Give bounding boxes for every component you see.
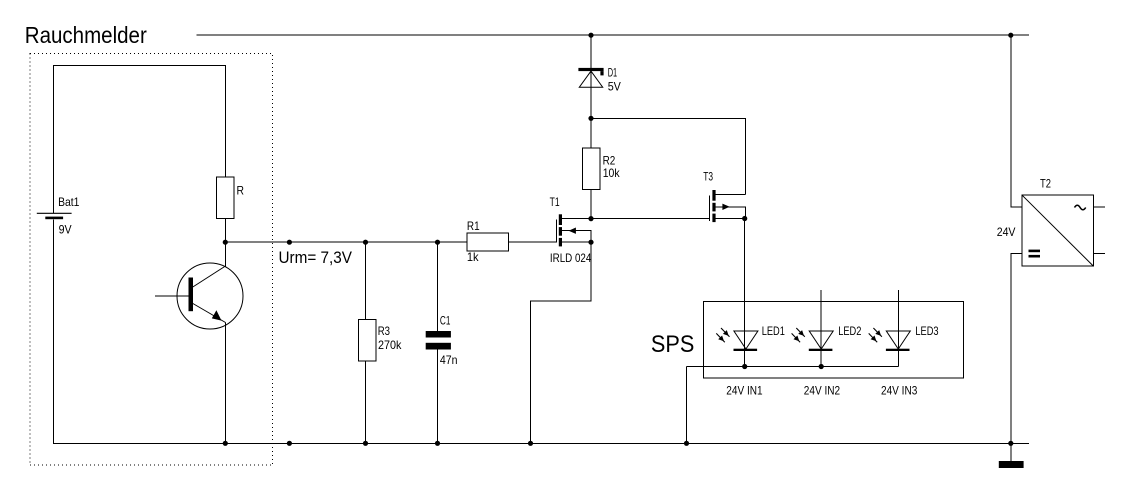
ground symbol: [999, 461, 1024, 468]
T1 gate line: [555, 220, 557, 243]
dashed enclosure Rauchmelder: [30, 54, 273, 466]
svg-text:270k: 270k: [378, 338, 402, 352]
node T1 source: [588, 240, 593, 245]
LED3 cathode bar: [886, 349, 910, 351]
LED1 triangle: [734, 331, 758, 349]
T3 source lead: [715, 218, 745, 220]
T1 channel bars: [559, 214, 562, 246]
power supply T2 diagonal: [1022, 195, 1093, 266]
transistor NPN base bar: [189, 278, 194, 312]
node Urm boundary: [287, 240, 292, 245]
wire NPN base stub: [155, 295, 188, 297]
node T3 source: [742, 216, 747, 221]
node top rail / right rail: [1008, 33, 1013, 38]
svg-text:10k: 10k: [603, 166, 621, 180]
node Urm / R / collector: [223, 240, 228, 245]
node GND / C1: [435, 441, 440, 446]
power supply T2 box: [1022, 195, 1093, 266]
wire T1 source down-step to GND: [531, 242, 592, 443]
transistor NPN circle: [177, 263, 243, 329]
wire LED2 anode stub: [820, 290, 822, 349]
T3 body arrow: [722, 204, 729, 210]
svg-text:24V IN1: 24V IN1: [726, 384, 763, 398]
wire SPS return to GND: [686, 367, 688, 444]
resistor R2 body: [582, 148, 600, 190]
svg-text:R3: R3: [378, 324, 391, 338]
wire battery top to R top: [53, 66, 225, 214]
node Urm / C1: [435, 240, 440, 245]
wire T1 drain node to T3 gate: [591, 218, 709, 220]
resistor R body: [217, 177, 235, 219]
svg-text:T3: T3: [703, 170, 713, 184]
LED2 cathode bar: [809, 349, 833, 351]
node top rail / D1: [588, 33, 593, 38]
wire bottom rail GND: [53, 442, 1029, 444]
LED LED2: [792, 328, 834, 351]
T1 drain lead: [562, 218, 592, 220]
svg-text:IRLD 024: IRLD 024: [550, 251, 592, 265]
svg-text:T1: T1: [550, 195, 560, 209]
node GND / T1 source: [528, 441, 533, 446]
wire T3 source to LED1 anode: [744, 219, 746, 350]
svg-text:47n: 47n: [440, 353, 458, 367]
zener diode D1 anode triangle: [579, 71, 602, 87]
wire R1 right to T1 gate: [509, 241, 557, 243]
LED1 arrows: [716, 328, 729, 342]
svg-text:24V IN3: 24V IN3: [881, 384, 918, 398]
transistor NPN emitter arrow: [212, 310, 222, 320]
wire battery bottom: [52, 220, 54, 444]
node GND / right rail: [1008, 441, 1013, 446]
wire node Urm horizontal: [225, 241, 467, 243]
node GND / emitter: [223, 441, 228, 446]
node LED2 cathode: [819, 364, 824, 369]
resistor R3 body: [359, 320, 377, 362]
svg-text:24V: 24V: [997, 225, 1016, 239]
wire R3 bottom lead: [365, 361, 367, 443]
svg-text:SPS: SPS: [651, 331, 694, 358]
battery Bat1 plates: [37, 213, 72, 219]
wire R3 top lead: [365, 242, 367, 319]
wire D1 top lead: [590, 35, 592, 68]
LED LED1: [716, 328, 758, 351]
T3 body lead: [715, 207, 745, 219]
svg-text:R: R: [237, 184, 245, 198]
LED LED3: [869, 328, 911, 351]
MOSFET T3: [709, 190, 745, 222]
svg-text:Bat1: Bat1: [58, 195, 80, 209]
svg-text:D1: D1: [608, 66, 618, 80]
svg-text:24V IN2: 24V IN2: [804, 384, 841, 398]
wire LED3 anode stub: [897, 290, 899, 349]
wire LED cathode rail: [687, 366, 899, 368]
node Urm / R3: [363, 240, 368, 245]
svg-text:C1: C1: [440, 314, 451, 328]
T3 drain lead: [715, 194, 745, 196]
resistor R1 body: [467, 233, 509, 251]
LED2 arrows: [792, 328, 805, 342]
T1 body lead: [562, 231, 592, 243]
transistor NPN collector diagonal: [192, 266, 226, 288]
wire T2 right stub lower: [1093, 252, 1105, 254]
LED3 triangle: [886, 331, 910, 349]
wire C1 top lead: [437, 242, 439, 331]
SPS enclosure box: [704, 301, 964, 377]
wire LED2 cathode lead: [820, 351, 822, 367]
zener diode D1 cathode bar: [578, 68, 603, 76]
wire C1 bottom lead: [437, 350, 439, 444]
wire R bottom to node: [224, 219, 226, 243]
wire ground stem: [1010, 443, 1012, 461]
T1 source lead: [562, 241, 592, 243]
svg-text:R1: R1: [467, 219, 480, 233]
node R2 / T1 drain / T3 gate: [588, 216, 593, 221]
wire top rail +24V: [197, 34, 1029, 36]
T3 gate line: [708, 195, 710, 221]
node GND boundary: [287, 441, 292, 446]
wire node to R2 top: [590, 118, 592, 148]
wire NPN collector: [224, 242, 226, 266]
wire right rail lower: [1011, 253, 1022, 443]
T3 channel bars: [712, 190, 715, 222]
wire node D1/R2 to T3 drain: [591, 118, 745, 194]
svg-text:T2: T2: [1040, 177, 1051, 191]
LED1 cathode bar: [734, 349, 758, 351]
LED2 triangle: [809, 331, 833, 349]
LED3 arrows: [869, 328, 882, 342]
capacitor C1 plates: [426, 331, 451, 350]
svg-text:LED1: LED1: [762, 324, 785, 338]
svg-text:Rauchmelder: Rauchmelder: [25, 22, 147, 48]
wire T2 right stub upper: [1093, 206, 1105, 208]
power supply T2 AC tilde: [1075, 205, 1086, 210]
T1 body arrow: [569, 228, 576, 234]
svg-text:Urm= 7,3V: Urm= 7,3V: [279, 249, 353, 267]
svg-text:LED2: LED2: [838, 324, 861, 338]
svg-text:1k: 1k: [467, 250, 480, 264]
transistor NPN emitter diagonal: [192, 303, 226, 323]
svg-text:5V: 5V: [608, 79, 621, 93]
wire D1 anode to node: [590, 71, 592, 118]
wire R2 bottom to T1 drain node: [590, 189, 592, 218]
svg-text:9V: 9V: [59, 223, 72, 237]
node GND / R3: [363, 441, 368, 446]
wire right rail upper: [1011, 35, 1022, 207]
MOSFET T1: [556, 214, 591, 246]
node D1 / R2 / T3 drain: [588, 116, 593, 121]
wire NPN emitter to GND: [224, 323, 226, 444]
wire LED3 cathode lead: [897, 351, 899, 367]
wire LED1 cathode lead: [744, 351, 746, 367]
svg-text:LED3: LED3: [915, 324, 938, 338]
power supply T2 DC bars: [1029, 250, 1041, 258]
node LED1 cathode: [742, 364, 747, 369]
node GND / SPS return: [684, 441, 689, 446]
